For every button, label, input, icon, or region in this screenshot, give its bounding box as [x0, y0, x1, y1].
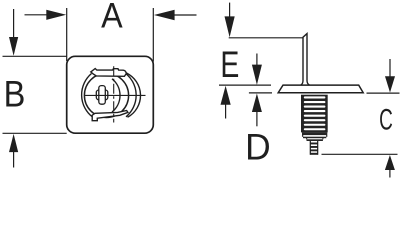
- dim C top arrow: [385, 59, 395, 93]
- crosshair horizontal: [84, 94, 146, 96]
- dim B bottom arrow: [9, 134, 18, 168]
- dim A right extension line: [152, 8, 154, 62]
- svg-text:B: B: [4, 75, 26, 115]
- collar 2 sides: [307, 138, 323, 139]
- collar 1 dark band: [302, 132, 327, 135]
- bottom tab: [92, 111, 128, 121]
- dim C head-bottom extension line right: [367, 92, 400, 94]
- outer right arc: [126, 73, 141, 118]
- collar 2 dark band: [303, 137, 326, 139]
- collar 1 sides: [303, 135, 327, 137]
- cam crescent arc: [112, 79, 120, 112]
- ring left arc: [82, 74, 93, 118]
- dim A left extension line: [66, 8, 68, 61]
- dim B bottom extension line: [3, 132, 67, 134]
- svg-text:D: D: [245, 126, 271, 168]
- dim D top arrow: [252, 54, 262, 85]
- slot vertical: [99, 86, 106, 105]
- dim E top extension line (blade top): [229, 37, 303, 39]
- top tab: [91, 69, 127, 77]
- dim B top arrow: [9, 9, 18, 56]
- dim C tip extension line: [322, 153, 398, 155]
- dim A right arrow: [154, 10, 197, 20]
- dim E/D head-top extension line: [219, 84, 271, 86]
- wing blade: [301, 34, 310, 86]
- stud head: [278, 85, 363, 93]
- ring right arc: [125, 73, 137, 117]
- centerline vertical: [113, 66, 115, 122]
- threaded body: [301, 95, 328, 133]
- dim D head-bottom extension line: [249, 92, 272, 94]
- slot horizontal: [96, 90, 108, 100]
- dim C bottom arrow: [385, 155, 395, 178]
- dim B top extension line: [3, 55, 67, 57]
- svg-text:E: E: [220, 43, 239, 84]
- receptacle inner circle: [84, 73, 128, 117]
- svg-text:A: A: [101, 0, 123, 36]
- mounting plate: [67, 56, 154, 133]
- dim A left arrow: [25, 10, 67, 20]
- dim E top arrow: [225, 3, 235, 38]
- dim E bottom arrow: [221, 86, 231, 119]
- dim D bottom arrow: [252, 94, 262, 127]
- collar 3 dark band: [307, 139, 323, 141]
- threaded tip: [310, 143, 317, 155]
- tip sides: [310, 141, 317, 155]
- svg-text:C: C: [379, 103, 393, 136]
